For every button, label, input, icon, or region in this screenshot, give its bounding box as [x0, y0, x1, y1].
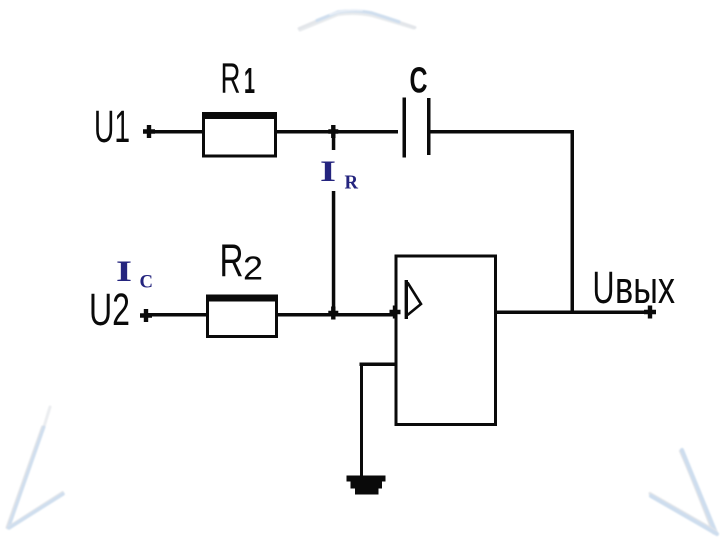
wire U1 to R1	[150, 130, 203, 134]
svg-text:вых: вых	[615, 262, 675, 313]
label I_R (blue)	[320, 155, 359, 194]
wire R2 to op-amp	[277, 313, 396, 317]
resistor R2	[206, 295, 278, 337]
node U2 terminal dot	[140, 309, 152, 322]
svg-text:U2: U2	[89, 284, 130, 335]
junction node at op-amp input	[390, 306, 401, 319]
wire U2 to R2	[148, 313, 207, 317]
vertical wire from junction down to line 2	[332, 131, 336, 314]
svg-text:C: C	[140, 272, 154, 293]
output wire	[495, 311, 650, 315]
op-amp triangle symbol	[406, 280, 421, 319]
svg-text:U: U	[593, 262, 615, 313]
junction node at I_R	[328, 125, 338, 138]
resistor R1	[202, 112, 277, 156]
svg-text:R: R	[221, 56, 241, 103]
wire R1 to capacitor	[277, 130, 398, 134]
decorative bottom-right swoosh	[650, 450, 717, 534]
ground symbol	[347, 476, 386, 495]
wire capacitor to feedback corner	[431, 130, 574, 134]
svg-text:R: R	[220, 235, 244, 287]
svg-text:1: 1	[244, 60, 255, 101]
svg-text:2: 2	[243, 250, 263, 287]
svg-text:I: I	[320, 155, 336, 188]
svg-text:R: R	[345, 172, 359, 194]
label Uvyx (output)	[593, 262, 676, 313]
junction node line2	[328, 307, 338, 320]
svg-text:C: C	[410, 60, 428, 101]
feedback vertical wire	[571, 130, 575, 312]
node U1 terminal dot	[143, 125, 155, 138]
ground vertical wire	[360, 364, 363, 477]
svg-text:U1: U1	[94, 101, 130, 152]
label R1	[221, 56, 256, 103]
capacitor C	[403, 98, 431, 158]
white mask under I_R label	[315, 150, 363, 191]
decorative top swoosh	[299, 10, 415, 30]
op-amp body rectangle	[396, 256, 496, 425]
ground stub wire	[360, 363, 397, 367]
output terminal dot	[644, 306, 656, 319]
label I_C (blue)	[116, 255, 153, 293]
decorative bottom-left swoosh	[7, 407, 63, 528]
label R2	[220, 235, 264, 287]
